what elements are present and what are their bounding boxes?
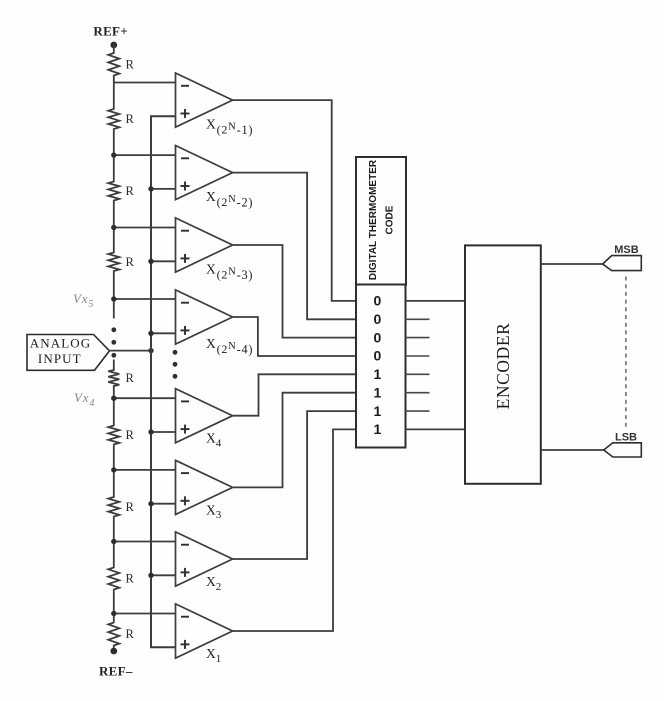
svg-text:1: 1 (374, 366, 382, 382)
LSB connector (604, 443, 642, 457)
wire bus to comparator plus input (151, 260, 176, 262)
MSB connector (603, 256, 642, 271)
wire ladder tap Vx5 to gap (113, 299, 115, 319)
resistor R9 (108, 614, 119, 652)
op-amp comparator U3 (176, 218, 233, 272)
thermometer bits box (356, 285, 406, 448)
node ladder junction (111, 152, 116, 157)
pin minus U5 (181, 400, 189, 402)
node ladder junction (111, 539, 116, 544)
svg-text:CODE: CODE (385, 205, 396, 234)
svg-text:0: 0 (374, 348, 382, 364)
node ladder junction (111, 225, 116, 230)
pin plus U3 (181, 254, 190, 263)
node bus junction (148, 501, 153, 506)
wire stub row 4 (406, 355, 430, 357)
wire analog input to bus (110, 350, 152, 352)
svg-text:1: 1 (374, 421, 382, 437)
wire ladder tap to comparator minus input 8 (114, 613, 176, 615)
svg-text:R: R (126, 112, 135, 126)
analog input label (30, 336, 91, 366)
wire encoder to MSB (541, 263, 603, 265)
wire bus to comparator plus input (151, 332, 176, 334)
wire encoder to LSB (541, 449, 604, 451)
svg-text:R: R (126, 428, 135, 442)
resistor R2 (108, 83, 119, 156)
svg-text:0: 0 (374, 311, 382, 327)
pin minus U2 (181, 157, 189, 159)
pin minus U8 (181, 616, 189, 618)
wire output U1 to code box row 1 (233, 100, 356, 301)
digital thermometer code box (356, 157, 406, 285)
svg-text:R: R (126, 572, 135, 586)
ladder ellipsis dots (111, 327, 116, 357)
svg-text:ANALOG: ANALOG (30, 336, 91, 351)
resistor R8 (108, 542, 119, 614)
svg-text:REF–: REF– (99, 664, 133, 679)
wire output U5 to code box row 5 (233, 374, 356, 415)
wire ladder tap to comparator minus input 4 (114, 298, 176, 300)
wire output U4 to code box row 4 (233, 317, 356, 356)
pin minus U4 (181, 302, 189, 304)
wire output U6 to code box row 6 (233, 393, 356, 488)
node bus junction (148, 259, 153, 264)
resistor R4 (108, 228, 119, 300)
op-amp comparator U5 (176, 389, 233, 443)
node bus junction (148, 186, 153, 191)
resistor R6 (108, 398, 119, 470)
op-amp comparator U4 (176, 290, 233, 344)
node bus junction (148, 429, 153, 434)
encoder block (465, 245, 541, 483)
analog input callout box (27, 335, 110, 371)
svg-text:R: R (126, 57, 135, 71)
pin plus U8 (181, 640, 190, 649)
wire ladder tap to comparator minus input 7 (114, 541, 176, 543)
digital thermometer code label (368, 159, 396, 280)
node bus junction (148, 573, 153, 578)
wire bus to comparator plus input (151, 574, 176, 576)
svg-text:ENCODER: ENCODER (493, 323, 513, 410)
svg-text:0: 0 (374, 293, 382, 309)
op-amp comparator U2 (176, 146, 233, 200)
node ladder junction (111, 611, 116, 616)
resistor R1 (108, 45, 119, 83)
pin plus U7 (181, 568, 190, 577)
svg-text:R: R (126, 500, 135, 514)
wire output U8 to code box row 8 (233, 429, 356, 631)
wire stub row 6 (406, 392, 430, 394)
svg-text:R: R (126, 627, 135, 641)
resistor R7 (108, 470, 119, 542)
wire stub row 3 (406, 337, 430, 339)
wire ladder tap to comparator minus input 3 (114, 227, 176, 229)
wire stub row 7 (406, 410, 430, 412)
wire ladder tap to comparator minus input 6 (114, 469, 176, 471)
pin plus U2 (181, 182, 190, 191)
REF+ terminal (110, 42, 117, 49)
node ladder junction (111, 467, 116, 472)
svg-text:R: R (126, 255, 135, 269)
op-amp comparator U8 (176, 604, 233, 658)
REF- terminal (110, 648, 117, 655)
wire analog input bus (151, 116, 176, 647)
svg-text:MSB: MSB (614, 244, 639, 256)
wire code box row 1 to encoder (406, 300, 466, 302)
pin plus U5 (181, 425, 190, 434)
wire stub row 5 (406, 373, 430, 375)
resistor R5 (108, 360, 119, 399)
wire stub row 2 (406, 318, 430, 320)
op-amp comparator U1 (176, 73, 233, 127)
wire bus to comparator plus input (151, 188, 176, 190)
wire bus to comparator plus input (151, 431, 176, 433)
svg-text:1: 1 (374, 403, 382, 419)
wire bus to comparator plus input (151, 503, 176, 505)
wire ladder tap to comparator minus input 5 (114, 397, 176, 399)
pin minus U3 (181, 230, 189, 232)
pin plus U6 (181, 496, 190, 505)
pin minus U7 (181, 544, 189, 546)
node ladder junction (111, 296, 116, 301)
svg-text:DIGITAL THERMOMETER: DIGITAL THERMOMETER (368, 159, 379, 280)
wire output U7 to code box row 7 (233, 411, 356, 559)
node bus junction (148, 331, 153, 336)
svg-text:INPUT: INPUT (38, 351, 82, 366)
svg-text:REF+: REF+ (93, 24, 128, 39)
wire ladder tap to comparator minus input 1 (114, 82, 176, 84)
pin minus U1 (181, 85, 189, 87)
svg-text:0: 0 (374, 329, 382, 345)
comparator ellipsis dots (173, 350, 178, 379)
dashed bus MSB to LSB (625, 277, 627, 429)
op-amp comparator U6 (176, 460, 233, 514)
wire code box row 8 to encoder (406, 428, 466, 430)
svg-text:LSB: LSB (615, 432, 637, 444)
wire ladder tap to comparator minus input 2 (114, 154, 176, 156)
op-amp comparator U7 (176, 532, 233, 586)
pin minus U6 (181, 472, 189, 474)
pin plus U1 (181, 109, 190, 118)
pin plus U4 (181, 326, 190, 335)
node analog input junction (148, 348, 153, 353)
svg-text:1: 1 (374, 384, 382, 400)
resistor R3 (108, 155, 119, 227)
svg-text:R: R (126, 184, 135, 198)
wire output U3 to code box row 3 (233, 245, 356, 338)
svg-text:R: R (126, 371, 135, 385)
node ladder junction (111, 396, 116, 401)
wire output U2 to code box row 2 (233, 173, 356, 320)
